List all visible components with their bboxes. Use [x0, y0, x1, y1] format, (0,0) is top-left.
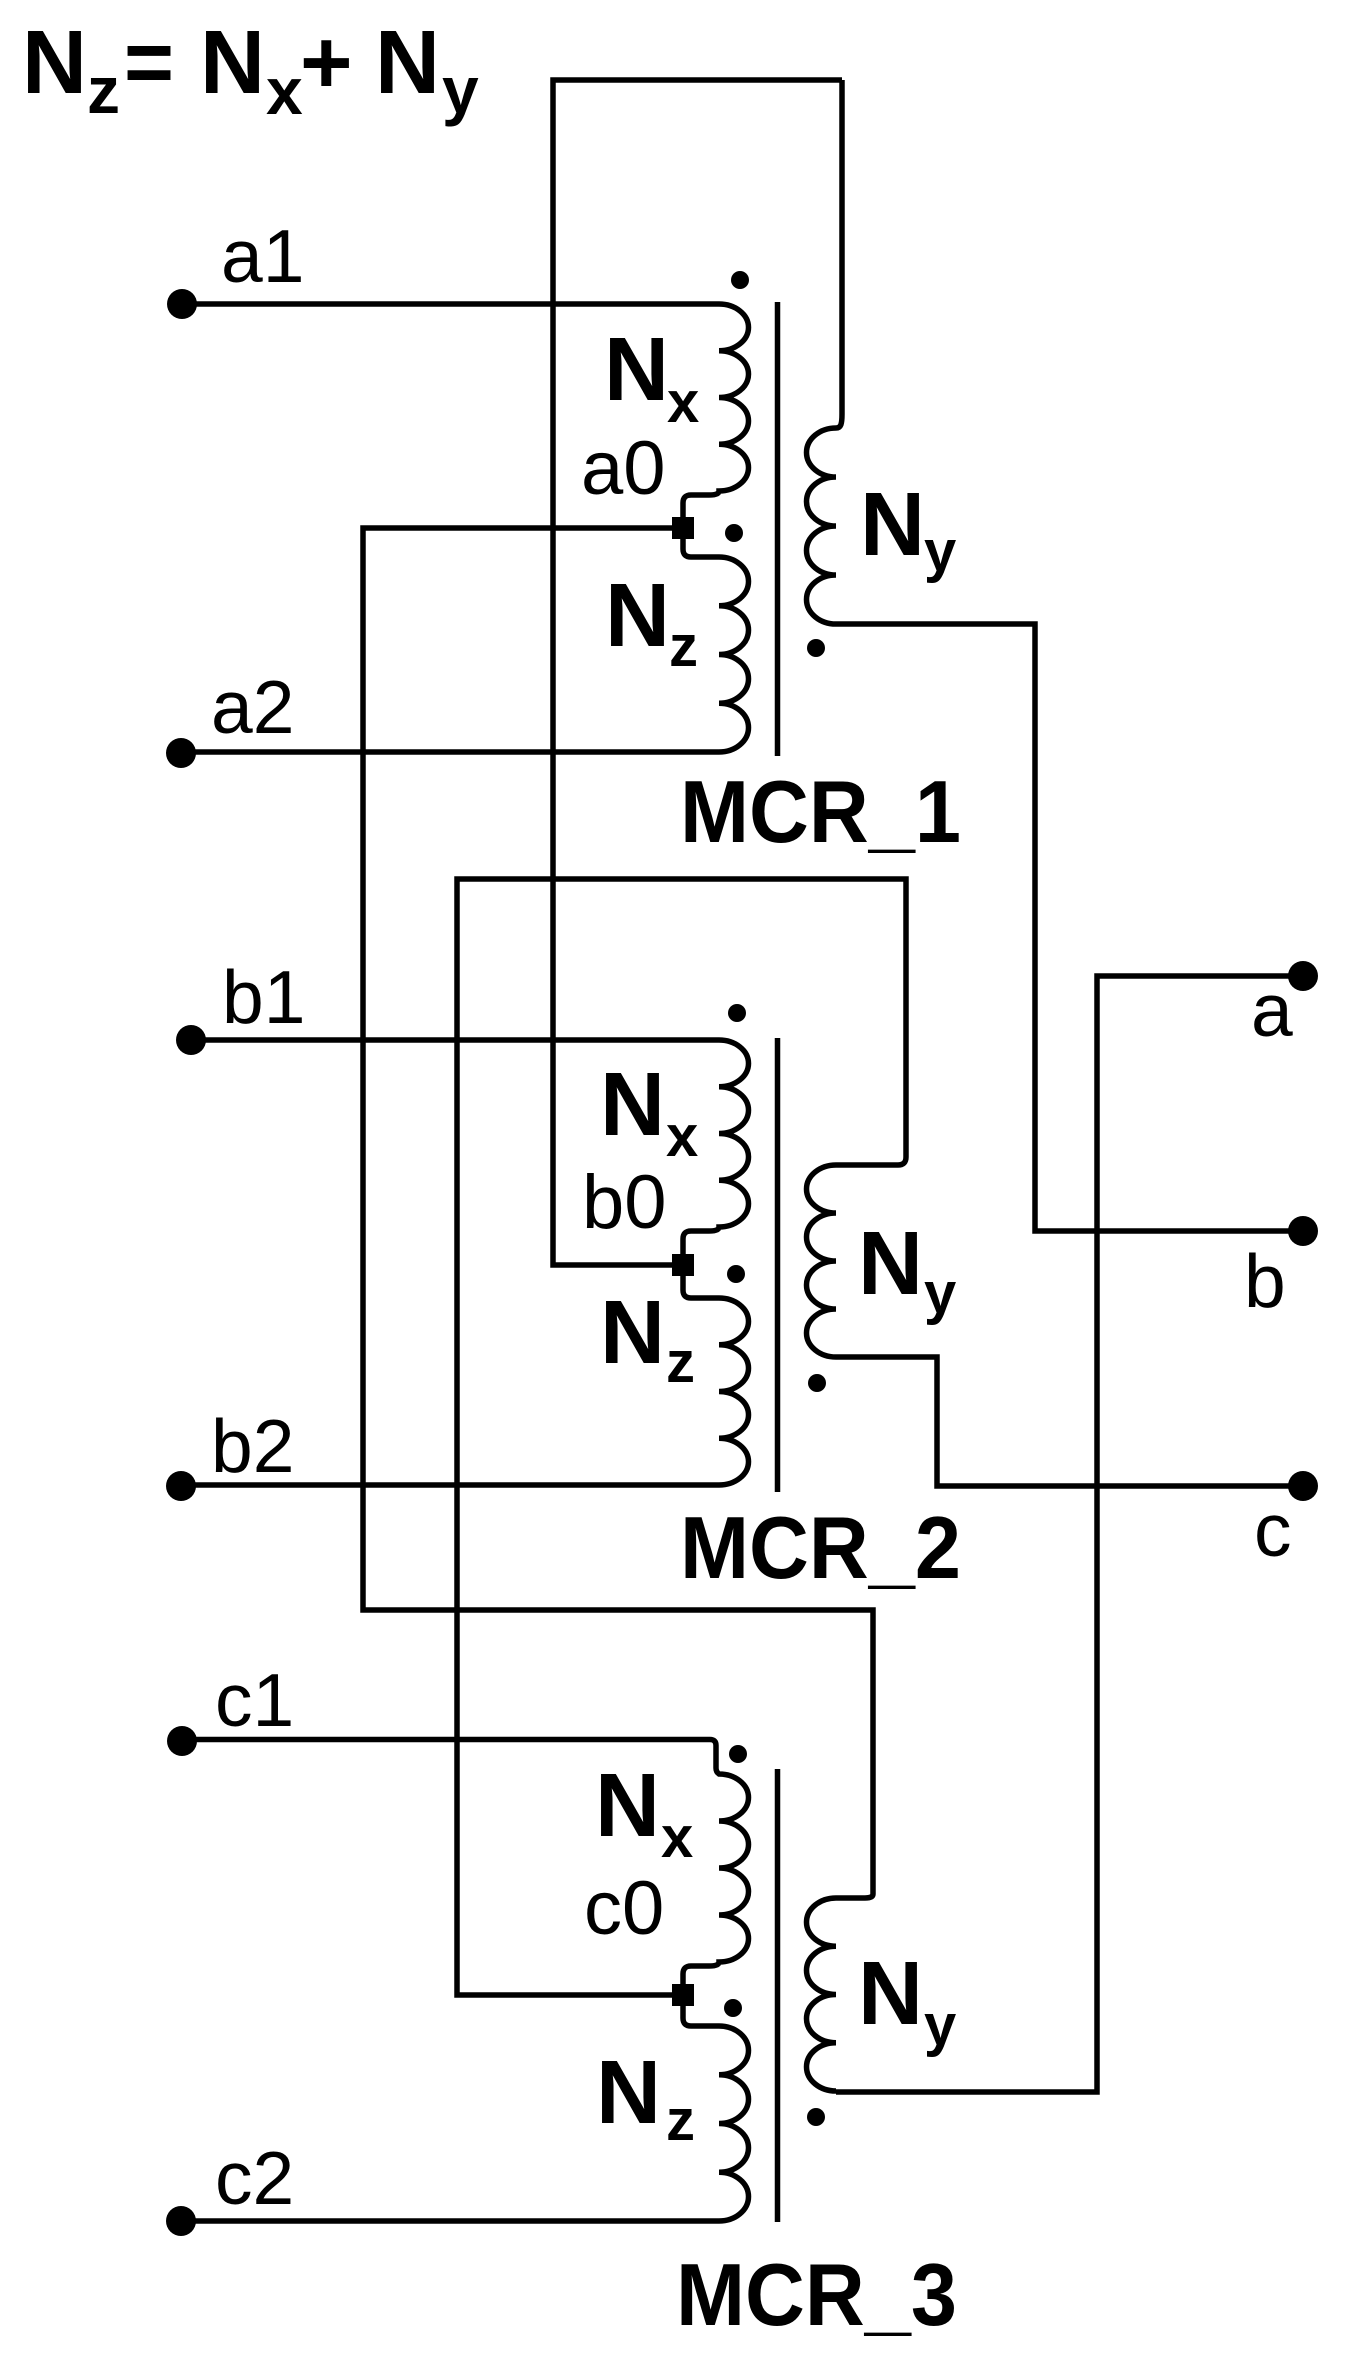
label Nz of MCR_2	[600, 1283, 695, 1395]
svg-text:b2: b2	[211, 1404, 294, 1488]
svg-text:z: z	[666, 1330, 695, 1395]
wire MCR_3 Ny to terminal a	[836, 976, 1303, 2092]
winding Nz of MCR_3	[683, 2006, 749, 2221]
terminal b1	[176, 1025, 206, 1055]
svg-text:x: x	[266, 54, 303, 128]
terminal b	[1288, 1216, 1318, 1246]
svg-text:y: y	[924, 1993, 956, 2058]
svg-text:c1: c1	[215, 1658, 294, 1742]
svg-text:z: z	[669, 614, 698, 679]
label Nx of MCR_3	[595, 1756, 693, 1870]
polarity dot Ny MCR_2	[808, 1374, 826, 1392]
svg-text:N: N	[200, 13, 265, 113]
svg-text:x: x	[661, 1805, 693, 1870]
svg-text:y: y	[442, 53, 479, 127]
svg-text:y: y	[924, 519, 956, 584]
polarity dot Nx MCR_3	[729, 1745, 747, 1763]
terminal c	[1288, 1471, 1318, 1501]
svg-text:N: N	[595, 1756, 660, 1856]
svg-text:a: a	[1251, 968, 1293, 1052]
wire c2 lead	[182, 2218, 719, 2224]
svg-text:N: N	[604, 320, 669, 420]
polarity dot Nx MCR_2	[728, 1004, 746, 1022]
svg-text:x: x	[666, 1104, 698, 1169]
svg-text:N: N	[605, 566, 670, 666]
svg-text:a0: a0	[581, 426, 666, 511]
svg-text:b0: b0	[582, 1160, 667, 1245]
tap b0 of MCR_2	[672, 1254, 694, 1276]
label Ny of MCR_1	[860, 475, 956, 584]
winding Nz of MCR_2	[683, 1276, 749, 1485]
wire a2 lead	[182, 749, 719, 755]
terminal a1	[167, 289, 197, 319]
winding Nx of MCR_1	[683, 304, 749, 517]
polarity dot Nz MCR_2	[727, 1265, 745, 1283]
label Nz of MCR_1	[605, 566, 698, 679]
svg-text:N: N	[860, 475, 925, 575]
tap c0 of MCR_3	[672, 1984, 694, 2006]
label Nx of MCR_2	[600, 1055, 698, 1169]
winding Nx of MCR_3	[683, 1740, 749, 1985]
wire b1 lead	[182, 1037, 719, 1043]
svg-text:N: N	[858, 1214, 923, 1314]
wire a1 lead	[182, 301, 719, 307]
svg-text:N: N	[600, 1283, 665, 1383]
wire MCR_1 Ny to terminal b	[836, 624, 1303, 1231]
svg-text:z: z	[87, 53, 120, 127]
wire c0 tap to MCR_2 Ny top	[457, 879, 906, 1995]
svg-text:a1: a1	[221, 214, 304, 298]
tap a0 of MCR_1	[672, 517, 694, 539]
svg-text:y: y	[924, 1261, 956, 1326]
label Nz of MCR_3	[596, 2043, 695, 2153]
svg-text:N: N	[596, 2043, 661, 2143]
svg-text:c: c	[1254, 1488, 1292, 1572]
svg-text:MCR_2: MCR_2	[680, 1498, 961, 1597]
label Nx of MCR_1	[604, 320, 699, 435]
winding Ny of MCR_1	[807, 80, 843, 624]
wire MCR_2 Ny to terminal c	[836, 1357, 1303, 1486]
core MCR_3	[775, 1769, 781, 2222]
svg-text:c2: c2	[215, 2136, 294, 2220]
svg-text:N: N	[600, 1055, 665, 1155]
svg-text:+: +	[300, 13, 353, 113]
terminal a	[1288, 961, 1318, 991]
terminal a2	[166, 738, 196, 768]
wire c1 lead	[182, 1737, 710, 1743]
core MCR_1	[775, 302, 781, 756]
winding Ny of MCR_3	[807, 1894, 874, 2091]
svg-text:N: N	[858, 1944, 923, 2044]
polarity dot Ny MCR_3	[807, 2108, 825, 2126]
terminal b2	[166, 1471, 196, 1501]
svg-text:MCR_1: MCR_1	[680, 762, 961, 861]
svg-text:N: N	[375, 13, 440, 113]
winding Ny of MCR_2	[807, 1157, 907, 1357]
svg-text:c0: c0	[584, 1866, 664, 1951]
svg-text:b: b	[1244, 1239, 1286, 1323]
wire b0 tap to MCR_1 Ny top	[553, 80, 842, 1265]
terminal c1	[167, 1726, 197, 1756]
terminal c2	[166, 2206, 196, 2236]
svg-text:=: =	[124, 13, 174, 113]
svg-text:a2: a2	[211, 665, 294, 749]
svg-text:MCR_3: MCR_3	[676, 2245, 957, 2344]
polarity dot Nx MCR_1	[731, 271, 749, 289]
wire b2 lead	[182, 1482, 719, 1488]
polarity dot Ny MCR_1	[807, 639, 825, 657]
label Ny of MCR_3	[858, 1944, 956, 2058]
core MCR_2	[775, 1038, 781, 1492]
svg-text:z: z	[666, 2088, 695, 2153]
winding Nz of MCR_1	[683, 539, 749, 752]
label Ny of MCR_2	[858, 1214, 956, 1326]
svg-text:N: N	[22, 13, 87, 113]
svg-text:x: x	[667, 370, 699, 435]
formula Nz = Nx + Ny	[22, 13, 479, 128]
polarity dot Nz MCR_3	[724, 1999, 742, 2017]
polarity dot Nz MCR_1	[725, 524, 743, 542]
svg-text:b1: b1	[222, 955, 305, 1039]
wire a0 tap to MCR_3 Ny top	[363, 528, 873, 1894]
winding Nx of MCR_2	[683, 1040, 749, 1254]
